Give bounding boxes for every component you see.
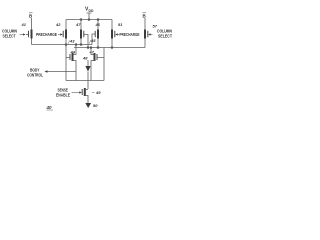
column select right arrow — [148, 33, 151, 35]
node dot A3 — [80, 44, 82, 46]
svg-text:51: 51 — [118, 22, 123, 27]
transistor 47 (cross-coupled left) — [75, 20, 88, 48]
COLUMN SELECT left label — [2, 29, 17, 39]
node line B — [74, 47, 145, 49]
svg-text:49: 49 — [95, 90, 101, 95]
svg-text:B: B — [143, 14, 147, 19]
svg-text:47: 47 — [75, 22, 81, 27]
transistor 44 (latch NMOS left) — [66, 45, 76, 81]
PRECHARGE left label — [36, 32, 57, 37]
svg-text:48: 48 — [82, 56, 88, 61]
COLUMN SELECT right label — [157, 29, 172, 39]
node dot A2 — [75, 44, 77, 46]
node dot B3 — [97, 47, 99, 49]
node dot B1 — [87, 47, 89, 49]
svg-text:SELECT: SELECT — [158, 34, 172, 39]
bitline stub left — [31, 18, 33, 30]
node line A — [32, 44, 93, 46]
transistor 51 (right precharge) — [112, 20, 123, 48]
svg-text:45: 45 — [90, 38, 96, 43]
svg-text:PRECHARGE: PRECHARGE — [120, 32, 140, 37]
svg-text:42: 42 — [55, 22, 61, 27]
figure numeral 40 — [46, 105, 53, 110]
svg-text:50: 50 — [93, 103, 98, 108]
transistor 42 (left precharge) — [55, 20, 66, 45]
body control arrow — [45, 70, 48, 72]
ground symbol — [85, 103, 91, 108]
svg-text:SELECT: SELECT — [3, 34, 16, 39]
body contact arrow (diode) — [87, 60, 89, 66]
bitline B-bar right label — [143, 14, 147, 19]
precharge left arrow — [58, 34, 60, 36]
transistor 46 (cross-coupled right) — [92, 20, 101, 48]
transistor 49 (sense enable) — [82, 88, 101, 103]
Vdd rail — [66, 19, 112, 21]
node dot rail-center — [88, 19, 90, 21]
transistor 41 (left column select) — [21, 22, 32, 45]
transistor 57 (right column select) — [145, 24, 158, 48]
svg-text:40: 40 — [46, 105, 53, 110]
svg-text:41: 41 — [21, 22, 27, 27]
svg-text:DD: DD — [89, 9, 94, 13]
node dot rail-left — [80, 19, 82, 21]
bitline stub right — [144, 18, 146, 30]
node dot A1 — [65, 44, 67, 46]
Vdd stub wire — [88, 13, 90, 20]
svg-text:ENABLE: ENABLE — [56, 93, 70, 98]
column select left arrow — [20, 34, 26, 36]
precharge right arrow — [115, 33, 118, 35]
svg-text:43: 43 — [69, 39, 75, 44]
sense enable arrow — [72, 92, 80, 94]
common source wire down — [87, 72, 89, 90]
svg-text:CONTROL: CONTROL — [27, 73, 43, 78]
body control wire — [47, 71, 76, 73]
node dot rail-right — [97, 19, 99, 21]
PRECHARGE right label — [120, 32, 140, 37]
svg-text:B: B — [29, 14, 33, 19]
node dot B4 — [111, 47, 113, 49]
node dot B2 — [90, 47, 92, 49]
body bottom rail — [66, 80, 104, 82]
transistor 47b (latch NMOS right) — [89, 48, 105, 81]
Vdd terminal tick — [87, 12, 92, 14]
SENSE ENABLE label — [56, 88, 70, 98]
BODY CONTROL label — [27, 68, 43, 78]
bitline B-bar left label — [29, 14, 33, 19]
Vdd supply label — [85, 7, 94, 14]
svg-text:PRECHARGE: PRECHARGE — [36, 32, 57, 37]
